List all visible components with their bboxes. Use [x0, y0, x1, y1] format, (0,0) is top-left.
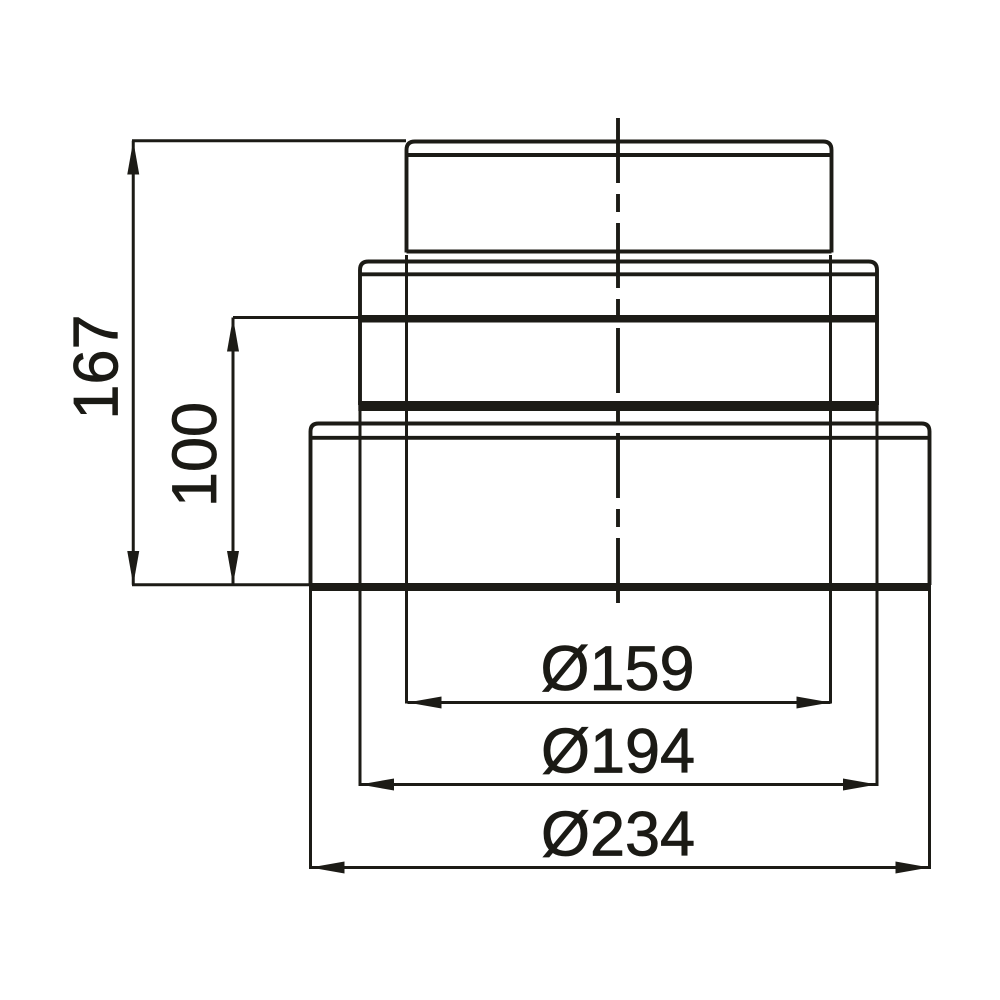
svg-text:Ø234: Ø234 — [541, 800, 695, 870]
svg-text:100: 100 — [160, 402, 230, 507]
svg-text:Ø159: Ø159 — [540, 634, 694, 704]
svg-text:167: 167 — [62, 314, 132, 419]
svg-text:Ø194: Ø194 — [541, 717, 695, 787]
